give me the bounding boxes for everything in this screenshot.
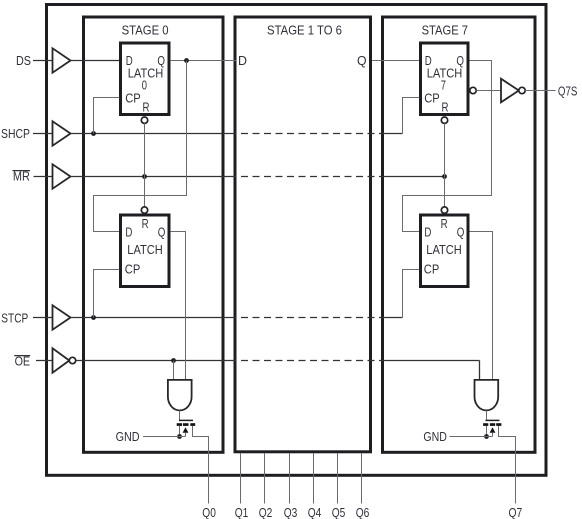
stage 0 box: [84, 17, 224, 452]
svg-text:R: R: [143, 99, 150, 114]
svg-text:R: R: [142, 216, 149, 231]
wire transistor Q2 drain to Q7 pad: [499, 426, 516, 504]
transistor Q2 contacts: [483, 423, 488, 426]
buffer STCP input: [53, 305, 71, 329]
svg-text:LATCH: LATCH: [127, 242, 162, 257]
inverter OE input: [53, 348, 70, 372]
AND gate output stage 7: [475, 380, 499, 411]
transistor Q1 bulk arrow: [183, 427, 189, 432]
wire gate0 output stem: [179, 411, 181, 421]
junction MR to stage7 R chain: [442, 174, 447, 179]
junction STCP to latch0 storage CP riser: [91, 315, 96, 320]
wire DS buffer to latch0 D: [71, 60, 120, 62]
junction SHCP to latch0 CP riser: [91, 131, 96, 136]
transistor Q1 contacts: [177, 423, 182, 426]
svg-text:R: R: [441, 216, 448, 231]
wire storage latch0 Q to output gate: [170, 232, 185, 381]
AND gate output stage 0: [168, 380, 192, 411]
junction latch0 Q feedback: [184, 58, 189, 63]
wire SHCP dashed through stage 1 to 6: [241, 133, 381, 135]
svg-text:CP: CP: [424, 91, 440, 106]
svg-text:Q3: Q3: [284, 505, 298, 519]
wire STCP solid in stage 7: [381, 317, 403, 319]
latch U4 storage latch stage 7 box: [421, 215, 469, 287]
svg-text:Q0: Q0: [202, 505, 216, 519]
wire STCP dashed through stage 1 to 6: [241, 317, 381, 319]
wire SHCP solid in stage 7: [381, 133, 403, 135]
wire OE drop to gate stage 0: [173, 361, 175, 381]
wire SHCP across stage 0: [71, 133, 237, 135]
wire storage latch7 CP elbow: [403, 270, 420, 318]
svg-text:Q7: Q7: [509, 505, 523, 519]
stage 1 to 6 box: [235, 17, 371, 452]
wire Q7S out: [525, 90, 555, 92]
svg-text:Q4: Q4: [308, 505, 322, 519]
svg-text:Q1: Q1: [235, 505, 249, 519]
bubble storage latch7 R input: [441, 207, 447, 213]
svg-text:7: 7: [441, 78, 446, 93]
svg-text:STAGE 7: STAGE 7: [422, 23, 468, 38]
wire R chain stage 7: [444, 123, 446, 207]
svg-text:STCP: STCP: [1, 311, 28, 326]
outer IC boundary box: [47, 5, 547, 476]
buffer DS input: [53, 48, 71, 72]
wire DS lead: [33, 60, 53, 62]
wire OE dashed through stage 1 to 6: [241, 360, 381, 362]
svg-text:CP: CP: [125, 262, 141, 277]
wire Q2 output: [264, 454, 266, 504]
latch U3 shift register stage 7 box: [421, 43, 469, 115]
wire OE solid in stage 7: [381, 360, 480, 362]
wire MR across stage 0: [71, 176, 237, 178]
pin label MR overline: [13, 170, 31, 172]
transistor Q2 gate bar: [486, 419, 500, 421]
bubble latch0 R input: [141, 117, 147, 123]
svg-text:Q6: Q6: [356, 505, 370, 519]
wire latch0 Q down-left to storage latch D: [94, 61, 187, 232]
wire latch7 Q down-left to storage latch7 D: [403, 61, 492, 232]
inverter Q7S output buffer: [501, 79, 519, 103]
transistor Q1 gate bar: [179, 419, 193, 421]
svg-text:STAGE 0: STAGE 0: [122, 23, 169, 38]
svg-text:Q5: Q5: [332, 505, 346, 519]
wire latch0 Q to stage 1: [170, 60, 236, 62]
wire latch7 CP elbow: [403, 98, 420, 134]
bubble OE inverter output: [69, 357, 75, 363]
wire SHCP lead: [33, 133, 53, 135]
svg-text:D: D: [238, 53, 247, 68]
wire transistor Q2 source leg: [486, 426, 488, 437]
svg-text:GND: GND: [423, 429, 447, 444]
wire latch0 CP elbow: [94, 98, 120, 134]
wire MR dashed through stage 1 to 6: [241, 176, 381, 178]
wire Q6 output: [361, 454, 363, 504]
junction GND stage 7: [484, 434, 489, 439]
wire Q3 output: [289, 454, 291, 504]
svg-text:Q2: Q2: [259, 505, 273, 519]
svg-text:Q7S: Q7S: [558, 83, 578, 98]
bubble storage latch0 R input: [141, 207, 147, 213]
wire GND stage 7: [450, 436, 493, 438]
stage 7 box: [383, 17, 536, 452]
svg-text:CP: CP: [424, 262, 440, 277]
svg-text:R: R: [442, 99, 449, 114]
wire OE drop to gate stage 7: [479, 361, 481, 381]
wire OE across stage 0: [76, 360, 236, 362]
wire Q4 output: [313, 454, 315, 504]
svg-text:MR: MR: [13, 169, 30, 184]
wire GND stage 0: [143, 436, 186, 438]
bubble latch7 Q7S inverted output: [470, 87, 476, 93]
wire R chain stage 0: [144, 123, 146, 207]
svg-text:Q: Q: [457, 225, 465, 240]
transistor Q2 bulk arrow: [490, 427, 496, 432]
wire MR solid in stage 7: [381, 176, 445, 178]
bubble latch7 R input: [441, 117, 447, 123]
buffer SHCP input: [53, 121, 71, 145]
wire stage 6 Q to latch7 D: [372, 60, 419, 62]
svg-text:OE: OE: [15, 353, 31, 368]
wire STCP across stage 0: [71, 317, 237, 319]
wire MR lead: [34, 176, 53, 178]
svg-text:D: D: [424, 225, 431, 240]
junction MR to stage0 R chain: [142, 174, 147, 179]
wire Q1 output: [240, 454, 242, 504]
wire STCP lead: [33, 317, 53, 319]
wire gate7 output stem: [486, 411, 488, 421]
svg-text:Q: Q: [357, 53, 367, 68]
svg-text:SHCP: SHCP: [1, 126, 30, 141]
svg-text:Q: Q: [158, 225, 166, 240]
wire storage latch0 CP elbow: [94, 270, 120, 318]
latch U2 storage latch stage 0 box: [121, 215, 170, 287]
junction GND stage 0: [177, 434, 182, 439]
wire Q5 output: [337, 454, 339, 504]
svg-text:D: D: [125, 225, 132, 240]
svg-text:0: 0: [142, 78, 147, 93]
wire Q7S to inverter: [476, 90, 501, 92]
svg-text:GND: GND: [116, 429, 140, 444]
wire transistor Q1 source leg: [179, 426, 181, 437]
bubble Q7S inverter output: [519, 87, 525, 93]
svg-text:STAGE 1 TO 6: STAGE 1 TO 6: [267, 23, 342, 38]
wire OE lead: [36, 360, 53, 362]
wire transistor Q1 drain to Q0 pad: [193, 426, 209, 504]
junction OE to stage0 output gate: [171, 358, 176, 363]
svg-text:CP: CP: [125, 91, 141, 106]
svg-text:LATCH: LATCH: [426, 242, 461, 257]
latch U1 shift register stage 0 box: [121, 43, 170, 115]
svg-text:DS: DS: [16, 53, 31, 68]
pin label OE overline: [14, 355, 30, 357]
wire storage latch7 Q to output gate: [470, 232, 493, 381]
buffer MR input: [53, 164, 71, 188]
